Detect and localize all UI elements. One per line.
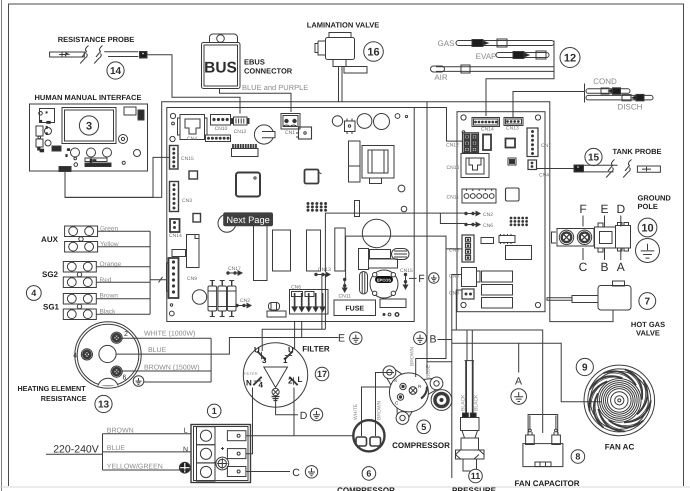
svg-text:CN3: CN3 — [182, 198, 192, 204]
connector CN10 (main PCB) — [211, 115, 231, 126]
svg-text:BUS: BUS — [204, 60, 237, 77]
svg-text:E: E — [600, 202, 608, 216]
svg-text:CN3: CN3 — [449, 291, 459, 297]
svg-text:CN12: CN12 — [234, 129, 247, 135]
svg-text:TANK PROBE: TANK PROBE — [612, 147, 661, 156]
filter ground to D — [276, 396, 298, 415]
wire EPCOS to F — [409, 277, 417, 279]
wire CN6 pin to filter U1 — [294, 322, 296, 350]
circled 7 — [639, 293, 656, 310]
connector CN3 (main PCB) — [170, 182, 179, 212]
wire CN6 pin2 to E line — [301, 322, 303, 338]
connector CN11 (right PCB) — [462, 189, 496, 203]
wire CN13main to filter U3 — [262, 275, 325, 352]
svg-text:U: U — [288, 346, 294, 355]
svg-text:YELLOW/GREEN: YELLOW/GREEN — [107, 462, 163, 470]
circled 4 — [26, 286, 41, 301]
wire filter N4 down to N tab — [246, 388, 253, 454]
fan capacitor body — [523, 415, 563, 467]
svg-text:AUX: AUX — [41, 235, 59, 244]
svg-text:B: B — [429, 334, 436, 346]
ground symbol B + letter — [414, 332, 427, 345]
Next Page button — [223, 212, 273, 226]
AIR probe — [431, 65, 555, 82]
svg-text:D: D — [616, 202, 625, 216]
svg-text:CN7: CN7 — [541, 143, 551, 149]
connector CN12 (right PCB) — [463, 133, 479, 153]
svg-text:CN11: CN11 — [447, 195, 460, 201]
wire HMI to CN15 — [65, 157, 170, 197]
svg-text:BROWN: BROWN — [410, 346, 416, 366]
right PCB components — [446, 115, 551, 308]
AUX/SG wires to bundle — [96, 231, 150, 314]
wire rail drop to compressor BLUE — [426, 102, 428, 375]
svg-text:BLUE: BLUE — [426, 364, 432, 378]
ground symbol A — [511, 389, 527, 405]
ground pole block — [552, 216, 631, 261]
heating element resistance body — [73, 322, 141, 388]
wire BLUE into compressor — [427, 361, 452, 363]
circled 10 — [638, 218, 657, 237]
wire BROWN — [122, 370, 212, 372]
relay K4 — [335, 228, 345, 271]
svg-text:VALVE: VALVE — [636, 329, 660, 338]
wire W1 rail to fan capacitor — [452, 330, 543, 433]
svg-text:CN12: CN12 — [446, 143, 459, 149]
wire BROWN into compressor — [415, 371, 417, 377]
svg-text:EPCOS: EPCOS — [377, 278, 391, 283]
svg-text:EBUS: EBUS — [244, 58, 265, 67]
svg-text:6: 6 — [123, 375, 127, 382]
filter body — [243, 343, 307, 407]
circled 6 — [362, 467, 376, 481]
svg-text:PRESSURE: PRESSURE — [452, 486, 497, 491]
svg-text:FILTER: FILTER — [302, 345, 330, 354]
svg-text:16: 16 — [367, 46, 379, 58]
circled 15 — [585, 148, 602, 165]
wire fan cap left pin up — [530, 416, 556, 430]
wire rail to CN12 stub — [414, 108, 462, 142]
relay K3 — [307, 230, 321, 271]
connector CN5 (right PCB) — [462, 268, 477, 287]
svg-text:FAN CAPACITOR: FAN CAPACITOR — [514, 479, 579, 488]
connector CN15 (main PCB) — [170, 146, 179, 170]
svg-text:E: E — [338, 333, 345, 345]
svg-text:CN6: CN6 — [483, 223, 493, 229]
EVAP probe — [476, 51, 549, 61]
svg-text:BLACK: BLACK — [474, 394, 480, 411]
svg-text:14: 14 — [110, 66, 122, 77]
svg-text:CN1: CN1 — [285, 130, 295, 136]
svg-text:CN4: CN4 — [539, 173, 549, 179]
svg-text:AIR: AIR — [434, 73, 448, 82]
svg-text:RESISTANCE: RESISTANCE — [41, 394, 87, 403]
svg-text:A: A — [617, 260, 625, 274]
svg-text:CN13: CN13 — [506, 126, 519, 132]
hot gas valve body — [547, 281, 631, 310]
wire CN13 to CN2 right board — [325, 213, 466, 272]
resistance probe body — [50, 46, 147, 64]
circled 8 — [571, 450, 585, 464]
relay K1 — [254, 226, 268, 281]
svg-text:CN2: CN2 — [483, 212, 493, 218]
main PCB board — [167, 108, 414, 322]
MCU IC — [236, 173, 260, 197]
svg-text:SG2: SG2 — [42, 270, 59, 279]
svg-text:CN10: CN10 — [447, 165, 460, 171]
svg-text:C: C — [292, 467, 300, 479]
fan AC motor — [584, 365, 655, 436]
connector CN9 (main PCB) — [169, 258, 179, 298]
bottom page separator — [0, 486, 690, 488]
wire WHITE — [121, 337, 211, 339]
svg-text:BROWN (1500W): BROWN (1500W) — [144, 364, 200, 372]
svg-text:RESISTANCE PROBE: RESISTANCE PROBE — [58, 35, 135, 44]
svg-text:1: 1 — [212, 406, 217, 416]
svg-text:4: 4 — [73, 353, 77, 360]
svg-text:D: D — [300, 410, 308, 422]
circled 3 — [79, 116, 98, 135]
svg-text:LAMINATION VALVE: LAMINATION VALVE — [307, 21, 380, 30]
svg-text:CN13: CN13 — [318, 267, 331, 273]
svg-text:CN14: CN14 — [169, 233, 182, 239]
svg-text:11: 11 — [471, 471, 481, 481]
svg-text:POLE: POLE — [638, 202, 658, 211]
svg-text:BLACK: BLACK — [461, 394, 467, 411]
svg-text:HEATING ELEMENT: HEATING ELEMENT — [17, 384, 86, 393]
wires into compressor capacitor — [362, 373, 395, 437]
circled 14 — [107, 62, 124, 79]
svg-text:15: 15 — [588, 153, 600, 164]
transformer — [349, 141, 361, 166]
svg-text:CN15: CN15 — [400, 268, 413, 274]
connector CN7 (right PCB) — [527, 128, 538, 157]
wire HMI net to hot-gas-valve rail — [65, 102, 613, 322]
svg-text:4: 4 — [31, 288, 36, 298]
ground symbol under 10 — [636, 239, 660, 263]
svg-text:C: C — [579, 260, 588, 274]
buzzer/key switch — [254, 125, 273, 144]
wire CN4 to tank probe — [537, 168, 575, 170]
wire L tab to compressor cap — [246, 435, 354, 437]
electrolytic capacitors — [208, 286, 217, 311]
svg-text:BLUE: BLUE — [148, 347, 167, 354]
terminal block body — [191, 425, 251, 483]
tank probe body — [574, 160, 660, 178]
connector CN3 (right PCB) — [462, 289, 474, 299]
SG2 connector — [63, 262, 96, 288]
svg-text:N: N — [246, 379, 252, 388]
wire B to rail — [438, 339, 452, 341]
svg-text:COMPRESSOR: COMPRESSOR — [392, 441, 450, 450]
svg-text:17: 17 — [317, 369, 327, 379]
SG1 connector — [63, 294, 96, 320]
bundle vertical + to CN9 — [150, 231, 167, 314]
capacitor C2 — [362, 219, 390, 247]
circled 13 — [95, 395, 112, 412]
wire W2 to fan with A drop — [452, 343, 601, 402]
svg-text:10: 10 — [641, 222, 653, 234]
circled 17 — [315, 367, 329, 381]
junction bar + wire to CN13 — [513, 84, 585, 118]
AUX connector — [65, 226, 98, 252]
compressor capacitor (6) — [353, 420, 384, 451]
svg-text:WHITE (1000W): WHITE (1000W) — [144, 330, 195, 338]
connector CN10 (right PCB) — [461, 154, 489, 178]
svg-text:COND: COND — [593, 77, 617, 86]
svg-text:GAS: GAS — [438, 39, 455, 48]
EBUS connector body — [202, 34, 241, 89]
wire 3rd tab to C — [246, 471, 290, 473]
svg-text:9: 9 — [582, 363, 588, 374]
svg-text:12: 12 — [564, 53, 576, 65]
wire BLUE to E — [116, 338, 339, 355]
wire EBUS to CN1 — [220, 89, 292, 113]
COND probe — [586, 88, 630, 95]
svg-text:BROWN: BROWN — [377, 400, 383, 420]
svg-text:CN15: CN15 — [181, 156, 194, 162]
EPCOS varistor — [370, 270, 398, 298]
wire gnd to bus — [144, 382, 211, 384]
svg-text:3: 3 — [262, 356, 267, 365]
svg-text:EVAP: EVAP — [476, 52, 497, 61]
svg-text:7: 7 — [645, 297, 651, 308]
circled 11 — [469, 469, 483, 483]
circled 9 — [576, 358, 593, 375]
circled 5 — [417, 420, 431, 434]
svg-text:F: F — [579, 202, 586, 216]
main PCB components — [167, 113, 414, 317]
wire probe to CN12 — [147, 55, 240, 114]
pressure switch body — [456, 330, 485, 471]
relay K2 — [273, 230, 291, 271]
HMI board (3) — [30, 104, 148, 172]
svg-text:HUMAN MANUAL INTERFACE: HUMAN MANUAL INTERFACE — [35, 93, 142, 102]
wire CN3 down — [456, 290, 462, 330]
svg-text:F: F — [418, 273, 424, 285]
connector CN4 (right PCB) — [528, 160, 537, 170]
ground symbol F — [429, 273, 439, 283]
svg-text:5: 5 — [421, 422, 426, 432]
svg-text:S: S — [394, 378, 397, 383]
svg-text:COMPRESSOR: COMPRESSOR — [337, 486, 395, 491]
wire filter 2L down to L wire — [293, 388, 295, 436]
relay bank (right PCB) — [482, 271, 513, 282]
probe bundle wire to CN14 — [486, 41, 554, 117]
connector CN12 (main PCB) — [234, 117, 248, 125]
black ground at block — [179, 462, 190, 473]
wire CN5 down to junction rail — [452, 275, 462, 479]
supply wires — [46, 434, 191, 470]
svg-text:FUSE: FUSE — [345, 306, 364, 313]
ground symbol under element — [133, 376, 144, 387]
svg-text:BLUE and PURPLE: BLUE and PURPLE — [242, 83, 308, 92]
connector CN8 (right PCB) — [462, 235, 474, 262]
svg-text:CN2: CN2 — [240, 298, 250, 304]
svg-text:WHITE: WHITE — [353, 403, 359, 420]
wire drop to ground A — [518, 343, 520, 372]
capacitor C1 — [357, 114, 372, 129]
heating bus vertical — [210, 338, 212, 382]
svg-text:Red: Red — [100, 277, 112, 284]
svg-text:1: 1 — [283, 356, 288, 365]
svg-text:220-240V: 220-240V — [53, 444, 99, 456]
svg-text:FILTER: FILTER — [244, 371, 258, 376]
wire branch to CN6 right board — [440, 213, 466, 223]
DISCH probe — [586, 94, 653, 101]
svg-text:CN14: CN14 — [481, 127, 494, 133]
svg-text:2: 2 — [288, 377, 293, 386]
capacitor C3 — [192, 290, 206, 304]
svg-text:3: 3 — [86, 120, 92, 132]
connector CN14 (main PCB) — [170, 219, 180, 232]
svg-text:A: A — [515, 376, 522, 388]
connector CN4 (RJ45, main PCB) — [180, 115, 205, 140]
connector CN13 (right PCB) — [504, 118, 523, 126]
pin header row — [232, 149, 259, 157]
lamination valve body — [315, 33, 367, 102]
svg-text:13: 13 — [98, 399, 110, 410]
page left edge line — [1, 0, 3, 491]
svg-text:2: 2 — [124, 331, 128, 338]
circled 16 — [364, 42, 384, 62]
svg-text:U: U — [254, 346, 260, 355]
svg-text:SG1: SG1 — [43, 303, 60, 312]
svg-text:FAN AC: FAN AC — [605, 443, 635, 452]
right PCB board — [457, 112, 545, 312]
svg-text:DISCH: DISCH — [618, 103, 643, 112]
svg-text:CN9: CN9 — [187, 276, 197, 282]
svg-text:B: B — [600, 260, 608, 274]
svg-text:L: L — [298, 375, 303, 384]
circled 12 — [560, 48, 580, 68]
circled 1 — [207, 404, 221, 418]
svg-text:8: 8 — [575, 452, 580, 462]
connector CN14 (right PCB) — [472, 118, 500, 127]
svg-text:6: 6 — [366, 469, 371, 479]
compressor body — [383, 366, 452, 425]
svg-text:CN4: CN4 — [187, 136, 197, 142]
svg-text:CN10: CN10 — [215, 126, 228, 132]
wire CN8 to compressor BROWN riser — [346, 236, 462, 371]
svg-text:N: N — [183, 447, 188, 454]
connector CN1 (main PCB) — [281, 114, 300, 130]
circle under next page — [218, 214, 236, 232]
svg-text:BLUE: BLUE — [107, 445, 126, 452]
svg-text:CN11: CN11 — [339, 294, 352, 300]
svg-text:Next Page: Next Page — [226, 215, 269, 225]
svg-text:4: 4 — [259, 381, 264, 390]
svg-text:CONNECTOR: CONNECTOR — [244, 67, 293, 76]
GAS probe — [438, 39, 554, 48]
